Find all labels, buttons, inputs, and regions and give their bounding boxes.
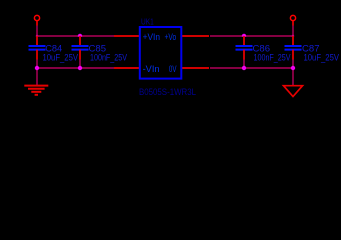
ground (chassis triangle) right bbox=[284, 86, 303, 97]
pin +VIn of U1 bbox=[114, 35, 140, 37]
svg-text:+Vo: +Vo bbox=[165, 32, 177, 43]
wire bottom-left rail bbox=[37, 67, 114, 69]
wire top-left rail bbox=[36, 35, 114, 37]
wire C86 bottom to bottom rail bbox=[243, 60, 245, 69]
wire port P1 down to top rail bbox=[36, 26, 38, 37]
wire top-right rail bbox=[210, 35, 293, 37]
pin -VIn of U1 bbox=[114, 67, 140, 69]
svg-text:100nF_25V: 100nF_25V bbox=[90, 52, 127, 63]
svg-text:10uF_25V: 10uF_25V bbox=[43, 52, 79, 63]
wire bottom rail to left ground bbox=[36, 68, 38, 86]
node junction bottom of C87 bbox=[291, 66, 295, 70]
svg-text:10uF_25V: 10uF_25V bbox=[304, 52, 340, 63]
wire C87 bottom to bottom rail bbox=[292, 60, 294, 69]
ground (earth) left bbox=[24, 86, 48, 95]
wire C85 bottom to bottom rail bbox=[79, 60, 81, 69]
node junction bottom of C85 bbox=[78, 66, 82, 70]
capacitor C84 bbox=[29, 36, 46, 60]
wire top rail up to port P2 bbox=[292, 26, 294, 37]
node junction bottom of C84 bbox=[35, 66, 39, 70]
capacitor C86 bbox=[236, 36, 253, 60]
capacitor C85 bbox=[72, 36, 89, 60]
svg-text:0V: 0V bbox=[169, 64, 177, 75]
node junction top of C86 bbox=[242, 34, 246, 37]
wire bottom-right rail bbox=[210, 67, 293, 69]
svg-text:UK1: UK1 bbox=[141, 17, 154, 26]
svg-text:100nF_25V: 100nF_25V bbox=[254, 52, 291, 63]
port P2 (output terminal) bbox=[290, 15, 295, 25]
port P1 (input terminal) bbox=[34, 15, 39, 25]
node junction at P1 corner bbox=[36, 34, 39, 37]
converter module U1 body bbox=[140, 27, 182, 79]
svg-text:+VIn: +VIn bbox=[143, 32, 160, 43]
wire bottom rail to right ground bbox=[292, 68, 294, 85]
pin +Vo of U1 bbox=[182, 35, 210, 37]
pin 0V of U1 bbox=[182, 67, 210, 69]
capacitor C87 bbox=[285, 36, 302, 60]
node junction top of C85 bbox=[78, 34, 82, 37]
wire C84 bottom to bottom rail bbox=[36, 60, 38, 69]
svg-text:B0505S-1WR3L: B0505S-1WR3L bbox=[139, 87, 196, 97]
node junction bottom of C86 bbox=[242, 66, 246, 70]
node junction at P2 corner bbox=[292, 34, 295, 37]
svg-text:-VIn: -VIn bbox=[143, 64, 160, 75]
